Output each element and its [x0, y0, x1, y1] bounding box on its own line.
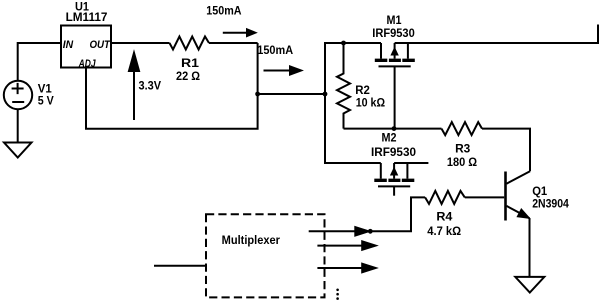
- junction mux row1 dot: [368, 229, 373, 234]
- svg-text:ADJ: ADJ: [78, 58, 96, 70]
- transistor M1 IRF9530: [375, 43, 415, 66]
- voltage annotation arrow 3.3V: [133, 68, 135, 120]
- wire R3 to Q1 collector: [482, 129, 530, 172]
- svg-text:IRF9530: IRF9530: [372, 28, 415, 40]
- svg-text:M1: M1: [387, 15, 403, 27]
- V1 plus sign: [12, 83, 24, 94]
- svg-text:150mA: 150mA: [257, 43, 293, 57]
- mux output arrow 2: [317, 245, 363, 247]
- wire node B up and right to R2 top: [325, 43, 344, 94]
- wire U1 OUT to R1: [111, 42, 170, 44]
- svg-text:R4: R4: [436, 212, 453, 224]
- svg-text:2N3904: 2N3904: [532, 199, 569, 211]
- current annotation arrow 150mA (below node): [264, 70, 291, 72]
- wire V1 bottom to ground: [17, 109, 19, 142]
- wire R2 bottom to R3: [344, 128, 442, 130]
- transistor M2 IRF9530: [374, 163, 414, 186]
- svg-text:R3: R3: [455, 144, 470, 156]
- svg-text:150mA: 150mA: [206, 3, 241, 17]
- svg-text:R2: R2: [355, 85, 370, 97]
- resistor R2: [337, 43, 350, 129]
- wire R4 to Q1 base: [465, 196, 504, 198]
- M2 gate stub: [393, 186, 395, 195]
- svg-text:22 Ω: 22 Ω: [176, 71, 200, 83]
- wire M1 source to top right output: [395, 25, 598, 44]
- wire node A to node B: [258, 93, 325, 95]
- junction node C dot (M1 gate / R2 / R3): [392, 126, 397, 131]
- svg-text:Q1: Q1: [532, 186, 548, 198]
- svg-text:M2: M2: [382, 133, 397, 145]
- resistor R4: [425, 191, 465, 204]
- svg-text:IN: IN: [63, 39, 74, 51]
- M1 gate wire down to node C: [394, 66, 396, 128]
- junction node A dot: [255, 92, 260, 97]
- junction R2 top dot: [341, 41, 346, 46]
- current annotation arrow 150mA (above R1): [223, 32, 247, 34]
- svg-text:180 Ω: 180 Ω: [447, 157, 477, 169]
- ellipsis dots below mux arrows: [336, 289, 339, 300]
- svg-text:4.7 kΩ: 4.7 kΩ: [427, 226, 461, 238]
- svg-text:LM1117: LM1117: [66, 12, 108, 24]
- ground (below V1): [4, 143, 32, 158]
- resistor R3: [442, 122, 483, 135]
- junction node B dot: [323, 92, 328, 97]
- multiplexer dashed box: [206, 214, 325, 297]
- wire M2 source stub: [394, 162, 428, 164]
- wire R2 top to M1 drain: [344, 42, 382, 44]
- wire R1 right to corner: [209, 42, 258, 44]
- wire node B down to M2 drain: [325, 94, 381, 163]
- svg-text:R1: R1: [181, 58, 200, 70]
- voltage source V1: [4, 81, 32, 109]
- svg-text:OUT: OUT: [90, 39, 112, 51]
- mux output arrow 1: [309, 230, 356, 232]
- wire U1 ADJ feedback: [86, 68, 258, 129]
- ground (below Q1): [515, 277, 544, 293]
- wire corner down to node A: [257, 43, 259, 94]
- op-amp U1 LM1117 regulator box: [61, 26, 111, 68]
- svg-text:IRF9530: IRF9530: [371, 147, 416, 159]
- svg-text:Multiplexer: Multiplexer: [222, 233, 281, 247]
- svg-text:5 V: 5 V: [38, 95, 54, 107]
- wire stub into multiplexer left: [154, 265, 206, 267]
- V1 minus sign: [12, 101, 24, 103]
- resistor R1: [170, 37, 210, 50]
- wire V1 top to U1 IN: [18, 43, 61, 81]
- svg-text:3.3V: 3.3V: [139, 78, 162, 92]
- transistor Q1 2N3904: [506, 171, 531, 276]
- svg-text:10 kΩ: 10 kΩ: [356, 98, 385, 110]
- wire R4 left lead down to mux row 1: [370, 197, 425, 231]
- mux output arrow 3: [317, 267, 363, 269]
- svg-text:V1: V1: [38, 84, 53, 96]
